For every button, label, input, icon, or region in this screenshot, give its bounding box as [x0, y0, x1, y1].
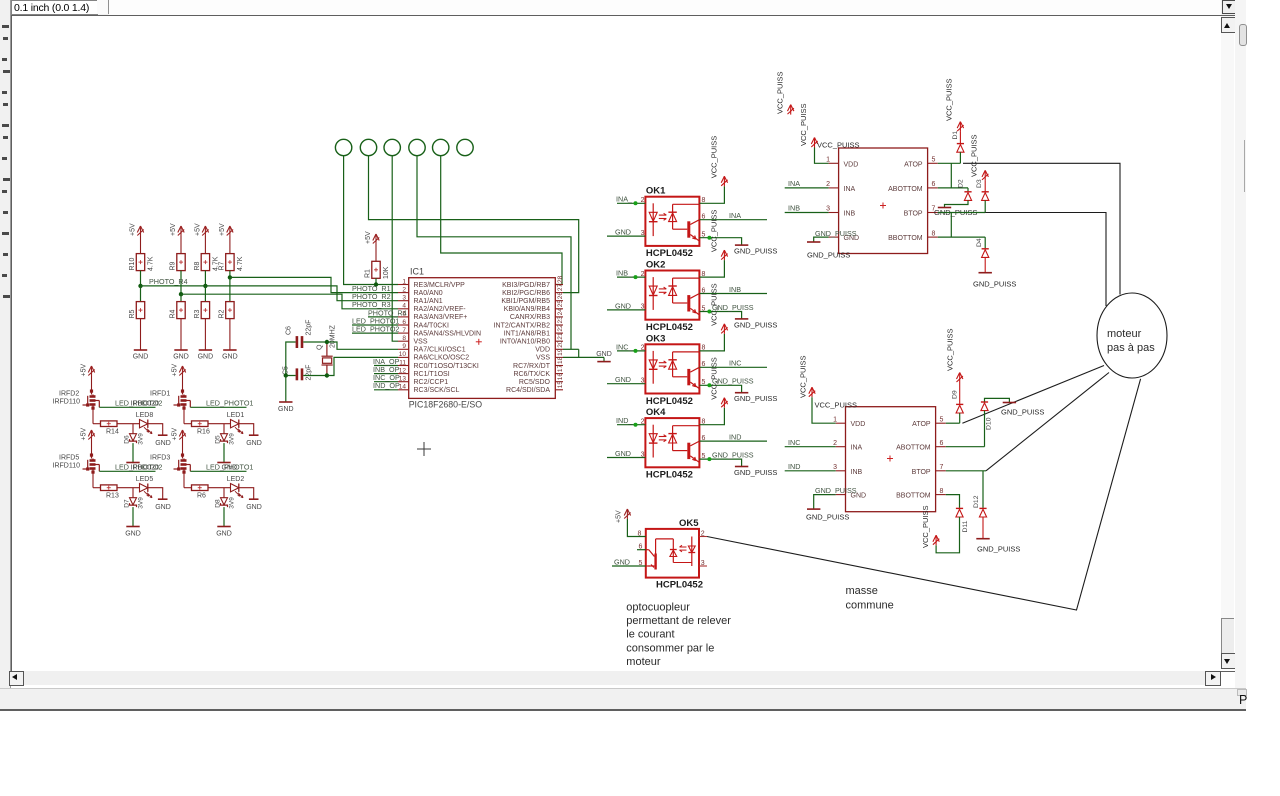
svg-text:R16: R16: [197, 429, 210, 436]
OK3 internal reverse diode: [672, 352, 674, 377]
svg-text:RC6/TX/CK: RC6/TX/CK: [513, 371, 550, 378]
svg-text:GND: GND: [222, 354, 238, 361]
wire masse commune OK5 to motor: [707, 379, 1141, 610]
svg-text:5: 5: [639, 560, 643, 567]
+5V supply for R10: [137, 226, 143, 236]
svg-text:HCPL0452: HCPL0452: [646, 322, 693, 333]
wire R7 top: [229, 236, 231, 254]
wire net INA to U2 pin2: [785, 187, 829, 189]
ground GND_PUISS right of D10: [1003, 402, 1016, 404]
left tool strip: [0, 0, 11, 690]
svg-text:2: 2: [826, 181, 830, 188]
svg-text:VDD: VDD: [851, 421, 866, 428]
svg-text:GND_PUISS: GND_PUISS: [734, 247, 777, 256]
OK3 pin 6 wire net INC: [699, 366, 767, 368]
svg-text:23: 23: [557, 316, 564, 324]
wire LED5 to ground: [148, 488, 163, 500]
transistor IRFD3: [183, 453, 185, 473]
OK4 pin 2 wire net IND_: [617, 424, 645, 426]
U3 center mark: [887, 456, 893, 462]
ground GND_PUISS below D4: [979, 272, 992, 274]
OK4 internal reverse diode: [672, 426, 674, 451]
svg-text:8: 8: [940, 488, 944, 495]
horizontal scrollbar left button: [9, 671, 24, 686]
svg-text:22: 22: [557, 324, 564, 332]
wire junction to R3: [204, 286, 206, 302]
wire R16 to LED1: [208, 423, 231, 425]
ground GND right of IC1: [603, 357, 605, 361]
svg-text:BBOTTOM: BBOTTOM: [888, 235, 923, 242]
OK3 pin 3 wire net GND: [607, 383, 645, 385]
ground below R2: [223, 349, 236, 351]
U2 pin 6 ABOTTOM: [928, 187, 938, 189]
IC1 pin 4: [398, 308, 409, 310]
wire R3 to ground: [204, 319, 206, 350]
wire IC1 pin19 to GND: [563, 356, 604, 358]
svg-text:IRFD110: IRFD110: [53, 463, 81, 470]
svg-text:D11: D11: [962, 520, 969, 532]
toolbar dropdown button: [1222, 0, 1238, 14]
+5V supply for R8: [202, 226, 208, 236]
wire C5 right to crystal bottom node: [303, 375, 327, 377]
optocoupler OK2 body: [645, 271, 699, 320]
svg-text:INA: INA: [729, 211, 741, 220]
svg-text:GND_PUISS: GND_PUISS: [807, 251, 850, 260]
OK1 internal top link to pin8: [673, 203, 700, 205]
svg-text:3: 3: [641, 230, 645, 237]
svg-text:GND: GND: [615, 449, 631, 458]
svg-text:4.7K: 4.7K: [237, 256, 244, 271]
svg-text:permettant de relever: permettant de relever: [626, 615, 731, 627]
svg-text:14: 14: [399, 384, 407, 391]
svg-text:INB: INB: [788, 204, 800, 213]
svg-text:3V9: 3V9: [229, 497, 236, 509]
wire R1 to pin1 node: [375, 278, 377, 284]
LED LED1: [231, 420, 239, 428]
ground GND_PUISS below OK3: [735, 392, 748, 394]
wire +5V to IRFD1: [182, 376, 184, 389]
svg-text:VCC_PUISS: VCC_PUISS: [817, 141, 860, 150]
svg-text:D9: D9: [952, 390, 959, 399]
svg-text:6: 6: [940, 440, 944, 447]
svg-text:8: 8: [638, 530, 642, 537]
svg-text:3: 3: [701, 560, 705, 567]
svg-text:VCC_PUISS: VCC_PUISS: [710, 210, 719, 253]
connector pad circle J6: [457, 139, 473, 155]
zener diode D7: [132, 488, 134, 498]
ground GND_PUISS below D2: [938, 207, 951, 209]
resistor R3: [201, 302, 209, 319]
svg-text:GND: GND: [615, 301, 631, 310]
svg-text:INB: INB: [851, 469, 863, 476]
optocoupler OK5 body: [646, 529, 699, 578]
svg-text:25: 25: [557, 300, 564, 308]
svg-text:IND: IND: [729, 433, 741, 442]
junction node R10: [138, 284, 142, 288]
svg-text:+5V: +5V: [81, 428, 88, 441]
wire R2 to ground: [229, 319, 231, 350]
wire D8 to ground: [223, 507, 225, 526]
op-amp U1 microcontroller IC1 body: [409, 278, 556, 399]
wire R8 to junction: [204, 271, 206, 286]
ground below R5: [134, 349, 147, 351]
black wire U3 ATOP to motor: [962, 366, 1104, 424]
svg-text:21: 21: [557, 332, 564, 340]
svg-text:D2: D2: [958, 179, 965, 188]
svg-text:GND: GND: [125, 531, 141, 538]
VCC_PUISS floating supply: [788, 105, 794, 115]
svg-text:INA_: INA_: [616, 195, 633, 204]
wire R6 to LED2: [208, 487, 231, 489]
wire D6 to ground: [132, 443, 134, 462]
svg-text:18: 18: [557, 356, 564, 364]
wire U3 ATOP output: [946, 422, 960, 424]
OK3 pin 5 wire to GND_PUISS: [699, 385, 741, 392]
svg-text:BTOP: BTOP: [904, 211, 923, 218]
svg-text:3: 3: [833, 464, 837, 471]
ground GND_PUISS below U3: [807, 508, 820, 510]
IC1 pin 24: [555, 316, 563, 318]
svg-text:3: 3: [641, 378, 645, 385]
svg-text:3: 3: [402, 295, 406, 302]
svg-text:C6: C6: [286, 326, 293, 335]
IC1 pin 14: [398, 389, 409, 391]
svg-text:GND_PUISS: GND_PUISS: [815, 229, 857, 238]
resistor R1: [372, 261, 380, 278]
IC1 pin 9: [398, 348, 409, 350]
zener diode D5: [223, 424, 225, 434]
svg-text:13: 13: [399, 376, 407, 383]
svg-text:HCPL0452: HCPL0452: [646, 248, 693, 259]
OK1 pin 2 wire net INA_: [617, 202, 645, 204]
OK5 pin6 internal lead: [646, 549, 649, 551]
OK4 pin 5 wire to GND_PUISS: [699, 459, 741, 466]
svg-text:2: 2: [641, 271, 645, 278]
ground right of LED8: [158, 434, 168, 436]
svg-text:R4: R4: [170, 309, 177, 318]
OK4 internal LED: [652, 425, 654, 458]
wire U2 ATOP output: [938, 162, 961, 164]
svg-text:3V9: 3V9: [138, 433, 145, 445]
wire IC pin20 row: [563, 348, 579, 350]
OK3 internal bottom link to base: [673, 376, 688, 378]
svg-text:VDD: VDD: [535, 347, 550, 354]
wire D10 to ABOTTOM: [984, 411, 986, 447]
transistor IRFD5: [92, 453, 94, 473]
wire D11 to VCC_PUISS: [936, 517, 959, 553]
diode D1: [959, 132, 961, 143]
OK2 pin 5 wire to GND_PUISS: [699, 312, 741, 319]
svg-text:2: 2: [833, 440, 837, 447]
svg-text:moteur: moteur: [1107, 328, 1142, 340]
wire U2 BBOTTOM output: [938, 236, 985, 238]
top coordinate toolbar: [0, 0, 1246, 16]
LED LED8: [140, 420, 148, 428]
svg-text:VCC_PUISS: VCC_PUISS: [710, 136, 719, 179]
svg-text:20MHZ: 20MHZ: [330, 324, 337, 348]
net wire from IRFD1 gate: [190, 406, 246, 408]
net label INC_OP wire to pin13: [374, 381, 398, 383]
OK4 pin 3 wire net GND: [607, 457, 645, 459]
OK5 pin5 internal lead: [646, 565, 650, 567]
wire R7 to junction: [229, 271, 231, 278]
svg-text:10K: 10K: [383, 266, 390, 279]
wire circle1 to R1 node and IC pin1: [344, 156, 398, 285]
svg-text:INC: INC: [788, 438, 800, 447]
svg-text:INT2/CANTX/RB2: INT2/CANTX/RB2: [494, 322, 551, 329]
OK2 internal reverse diode: [672, 278, 674, 303]
connector pad circle J3: [384, 139, 400, 155]
wire net PHOTO_R3 from R9/R4 to IC pin4: [181, 294, 398, 309]
browser scrollbar thumb pill: [1239, 24, 1247, 46]
wire U3 BTOP output: [946, 470, 986, 472]
wire ATOP to ABOTTOM link: [950, 163, 952, 188]
svg-text:RC3/SCK/SCL: RC3/SCK/SCL: [414, 387, 460, 394]
junction node crystal top: [325, 340, 329, 344]
wire R10 top: [140, 236, 142, 254]
OK1 internal LED: [652, 203, 654, 236]
svg-text:D7: D7: [124, 499, 131, 508]
toolbar blank area: [109, 0, 1221, 15]
resistor R5: [136, 302, 144, 319]
svg-text:26: 26: [557, 292, 564, 300]
svg-text:GND: GND: [133, 354, 149, 361]
ground below R4: [174, 349, 187, 351]
ground GND_PUISS below D12: [976, 538, 989, 540]
svg-text:commune: commune: [846, 600, 894, 612]
svg-text:INB: INB: [729, 285, 741, 294]
U2 pin 1 VDD: [829, 162, 839, 164]
wire to R14: [93, 423, 101, 425]
svg-text:GND: GND: [155, 504, 171, 511]
U2 pin 8 BBOTTOM: [928, 236, 938, 238]
status bar bottom line: [0, 709, 1246, 711]
svg-text:ATOP: ATOP: [904, 161, 923, 168]
wire U3 ABOTTOM output: [946, 446, 985, 448]
svg-text:masse: masse: [846, 585, 878, 597]
net label INA_OP wire to pin11: [374, 365, 398, 367]
wire VCC_PUISS to U2 pin1: [815, 148, 829, 164]
cursor cross mark: [417, 442, 431, 456]
wire U2 BTOP output: [938, 212, 985, 214]
svg-text:KBI2/PGC/RB6: KBI2/PGC/RB6: [502, 290, 550, 297]
svg-text:LED5: LED5: [136, 476, 154, 483]
IC1 pin 19: [555, 356, 563, 358]
svg-text:R10: R10: [129, 258, 136, 271]
transistor IRFD2: [92, 389, 94, 409]
svg-text:8: 8: [702, 345, 706, 352]
vertical scrollbar up button: [1221, 17, 1236, 33]
svg-text:+5V: +5V: [170, 223, 177, 236]
svg-text:BBOTTOM: BBOTTOM: [896, 493, 931, 500]
svg-text:15: 15: [557, 381, 564, 389]
svg-text:RC1/T1OSI: RC1/T1OSI: [414, 371, 450, 378]
svg-text:3V9: 3V9: [138, 497, 145, 509]
wire D7 to ground: [132, 507, 134, 526]
svg-text:+5V: +5V: [172, 364, 179, 377]
svg-text:optocuopleur: optocuopleur: [626, 602, 690, 614]
wire circle5 to IC pin28: [441, 156, 562, 285]
optocoupler OK4 body: [645, 418, 699, 467]
svg-text:LED_PHOTO1: LED_PHOTO1: [206, 399, 253, 408]
svg-text:pas à pas: pas à pas: [1107, 342, 1155, 354]
OK4 internal phototransistor: [687, 443, 690, 459]
OK1 pin 3 wire net GND: [607, 235, 645, 237]
junction node crystal bottom: [325, 373, 329, 377]
svg-text:6: 6: [702, 287, 706, 294]
svg-text:8: 8: [932, 230, 936, 237]
svg-text:RC4/SDI/SDA: RC4/SDI/SDA: [506, 387, 550, 394]
OK1 pin 8 wire to VCC_PUISS: [699, 186, 724, 203]
horizontal scrollbar right button: [1205, 671, 1221, 686]
svg-text:1: 1: [833, 416, 837, 423]
svg-text:PIC18F2680-E/SO: PIC18F2680-E/SO: [409, 400, 483, 410]
svg-text:ATOP: ATOP: [912, 421, 931, 428]
svg-text:ABOTTOM: ABOTTOM: [896, 445, 931, 452]
motor driver IC U2 body: [839, 148, 928, 254]
wire net PHOTO_R2 from R10/R5 through R8/R3 to IC pin3: [141, 286, 399, 301]
net label IND_OP wire to pin14: [374, 389, 398, 391]
OK3 internal top link to pin8: [673, 351, 700, 353]
diode D4: [984, 237, 986, 248]
wire junction to R4: [180, 294, 182, 301]
ground below D5: [217, 462, 230, 464]
wire D4 to GND_PUISS: [984, 257, 986, 272]
OK1 pin 5 wire to GND_PUISS: [699, 238, 741, 245]
U2 center mark: [880, 203, 886, 209]
svg-text:INT1/AN8/RB1: INT1/AN8/RB1: [504, 330, 550, 337]
svg-text:GND: GND: [615, 375, 631, 384]
svg-text:D5: D5: [215, 435, 222, 444]
svg-text:VCC_PUISS: VCC_PUISS: [776, 71, 785, 114]
ground right of LED2: [249, 498, 259, 500]
U3 pin 3 INB: [836, 470, 846, 472]
capacitor C6: [297, 336, 302, 348]
svg-text:IND_: IND_: [616, 416, 633, 425]
+5V supply for R9: [178, 226, 184, 236]
VCC_PUISS supply above D9: [957, 373, 963, 383]
wire to R13: [93, 487, 101, 489]
IC1 pin 7: [398, 332, 409, 334]
wire D10 to GND_PUISS: [985, 398, 1010, 402]
wire LED8 to ground: [148, 424, 163, 436]
svg-text:moteur: moteur: [626, 656, 661, 668]
svg-text:GND: GND: [222, 465, 238, 472]
OK2 pin 6 wire net INB: [699, 293, 767, 295]
optocoupler OK3 body: [645, 344, 699, 393]
capacitor C5: [297, 368, 302, 380]
wire IRFD1 source down: [183, 409, 185, 424]
svg-text:+5V: +5V: [194, 223, 201, 236]
OK2 internal bottom link to base: [673, 302, 688, 304]
zener diode D6: [132, 424, 134, 434]
svg-text:+5V: +5V: [365, 231, 372, 244]
svg-text:RA1/AN1: RA1/AN1: [414, 298, 443, 305]
connector pad circle J5: [433, 139, 449, 155]
+5V supply for IRFD2: [88, 366, 94, 376]
vertical scrollbar down button: [1221, 653, 1236, 669]
svg-text:PHOTO_R4: PHOTO_R4: [149, 277, 188, 286]
wire +5V to IRFD5: [91, 440, 93, 453]
net wire from IRFD2 gate: [99, 406, 155, 408]
svg-text:D12: D12: [973, 495, 980, 508]
IC1 pin 2: [398, 292, 409, 294]
wire circle2 to IC pin27: [369, 156, 579, 293]
svg-text:2: 2: [701, 530, 705, 537]
U3 pin 2 INA: [836, 446, 846, 448]
VCC_PUISS supply above OK2 pin8: [721, 250, 727, 260]
svg-text:8: 8: [702, 271, 706, 278]
svg-text:D8: D8: [215, 499, 222, 508]
OK4 coupling arrows: [659, 435, 667, 442]
svg-text:D3: D3: [976, 179, 983, 188]
IC1 pin 27: [555, 292, 563, 294]
svg-text:24: 24: [557, 308, 564, 316]
svg-text:19: 19: [557, 348, 564, 356]
resistor R9: [177, 254, 185, 271]
svg-text:GND_PUISS: GND_PUISS: [734, 468, 777, 477]
svg-text:HCPL0452: HCPL0452: [646, 396, 693, 407]
svg-text:3: 3: [826, 206, 830, 213]
svg-text:GND: GND: [596, 351, 612, 358]
svg-text:GND: GND: [614, 557, 630, 566]
net wire from IRFD3 gate: [190, 470, 246, 472]
svg-text:ABOTTOM: ABOTTOM: [888, 186, 923, 193]
svg-text:LED8: LED8: [136, 412, 154, 419]
wire net INC to U3 pin2: [785, 446, 836, 448]
resistor R14: [101, 421, 118, 427]
left toolbar icon fragments: [2, 25, 9, 28]
svg-text:OK5: OK5: [679, 518, 699, 529]
wire VCC_PUISS to U3 pin1: [812, 397, 836, 423]
svg-text:R9: R9: [170, 261, 177, 270]
wire C6 right to crystal node: [303, 341, 327, 343]
svg-text:GND_PUISS: GND_PUISS: [973, 280, 1016, 289]
ground below D7: [126, 526, 139, 528]
IC1 pin 16: [555, 381, 563, 383]
svg-text:RA6/CLKO/OSC2: RA6/CLKO/OSC2: [414, 355, 470, 362]
svg-text:16: 16: [557, 373, 564, 381]
svg-text:GND_PUISS: GND_PUISS: [712, 450, 754, 459]
svg-text:INA: INA: [851, 445, 863, 452]
svg-text:VCC_PUISS: VCC_PUISS: [710, 357, 719, 400]
resistor R4: [177, 302, 185, 319]
svg-text:INA: INA: [844, 186, 856, 193]
OK2 internal top link to pin8: [673, 277, 700, 279]
diode D12: [982, 471, 984, 508]
svg-text:RA2/AN2/VREF-: RA2/AN2/VREF-: [414, 306, 467, 313]
svg-text:GND: GND: [216, 531, 232, 538]
U3 pin 1 VDD: [836, 422, 846, 424]
net label PHOTO_R4 wire to pin5: [368, 316, 398, 318]
svg-text:RA3/AN3/VREF+: RA3/AN3/VREF+: [414, 314, 468, 321]
motor driver IC U3 body: [846, 407, 936, 512]
wire +5V to IRFD2: [91, 376, 93, 389]
svg-text:RC5/SDO: RC5/SDO: [519, 379, 551, 386]
vertical scrollbar thumb: [1221, 618, 1234, 654]
U3 pin 6 ABOTTOM: [936, 446, 946, 448]
IC1 pin 17: [555, 373, 563, 375]
wire LED1 to ground: [239, 424, 254, 436]
U2 pin 4 GND: [829, 236, 839, 238]
+5V supply for R7: [227, 226, 233, 236]
OK5 pin 3 stub: [699, 565, 707, 567]
wire R8 top: [204, 236, 206, 254]
VCC_PUISS supply for U3 VDD: [809, 387, 815, 397]
svg-text:5: 5: [932, 157, 936, 164]
crystal Q1 20MHZ: [322, 342, 333, 376]
schematic canvas frame: [11, 15, 1236, 672]
